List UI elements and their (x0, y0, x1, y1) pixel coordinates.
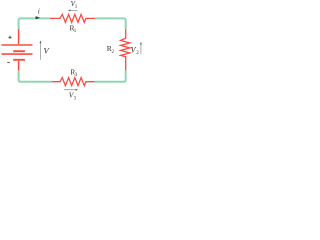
voltage arrow V1 (points left) (68, 9, 77, 11)
resistor R2 (121, 29, 130, 71)
svg-text:3: 3 (75, 73, 78, 78)
battery bottom lead (18, 61, 20, 71)
voltage arrow V (points up) (40, 41, 42, 60)
svg-text:1: 1 (75, 5, 78, 10)
resistor R3 (52, 78, 95, 86)
svg-text:3: 3 (74, 96, 77, 100)
svg-text:i: i (38, 6, 40, 15)
wire bottom-left segment (19, 71, 52, 82)
battery plus sign (8, 36, 11, 39)
wire top-right segment (95, 18, 126, 29)
voltage arrow V2 (points up) (140, 42, 142, 54)
battery top lead (18, 29, 20, 44)
svg-text:2: 2 (112, 50, 115, 55)
voltage arrow V3 (points right) (64, 89, 78, 91)
battery V (2, 29, 33, 71)
battery minus sign (7, 61, 10, 63)
svg-text:1: 1 (74, 29, 77, 34)
svg-text:2: 2 (136, 51, 139, 56)
current arrow i (points right) (36, 16, 41, 19)
svg-text:V: V (44, 46, 51, 56)
wire bottom-right segment (95, 71, 126, 82)
wire top-left segment (19, 18, 50, 29)
battery long plate 1 (2, 44, 33, 46)
battery long plate 2 (2, 53, 33, 55)
battery short plate 1 (13, 50, 25, 52)
battery short plate 2 (13, 59, 25, 61)
resistor R1 (50, 14, 95, 22)
